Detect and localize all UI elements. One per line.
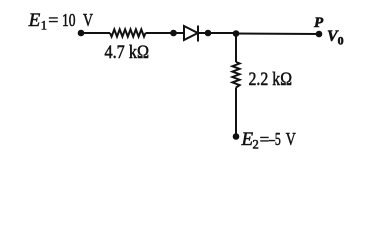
svg-text:=: = [260,130,270,149]
node E2 terminal [233,133,240,140]
svg-text:E: E [28,10,41,31]
svg-text:V: V [83,10,93,30]
diode D1 [184,26,198,42]
wire junction to R2 [235,34,237,63]
node P [316,31,323,38]
svg-text:10: 10 [62,10,76,30]
svg-text:–5: –5 [268,129,280,149]
wire node A to diode [174,32,185,34]
svg-text:2.2 kΩ: 2.2 kΩ [249,69,293,90]
node K (diode cathode) [205,30,212,37]
wire R2 to E2 [235,88,237,137]
svg-text:V: V [286,129,296,149]
wire diode to node K [198,32,208,34]
wire E1 to R1 [81,32,110,34]
node A (diode anode) [170,30,177,37]
resistor R1 4.7 kΩ [110,29,146,36]
resistor R2 2.2 kΩ [232,62,239,88]
svg-text:1: 1 [41,19,47,33]
label E1 = 10 V [28,10,93,33]
wire R1 to node A [146,32,174,34]
junction node [233,30,240,37]
svg-text:4.7 kΩ: 4.7 kΩ [105,42,150,63]
label E2 = -5 V [241,129,296,152]
svg-text:2: 2 [253,138,259,151]
wire node K to junction [208,32,236,34]
svg-text:P: P [314,15,324,31]
svg-text:=: = [48,10,58,30]
node E1 terminal [78,30,85,37]
wire junction to node P [236,33,319,36]
